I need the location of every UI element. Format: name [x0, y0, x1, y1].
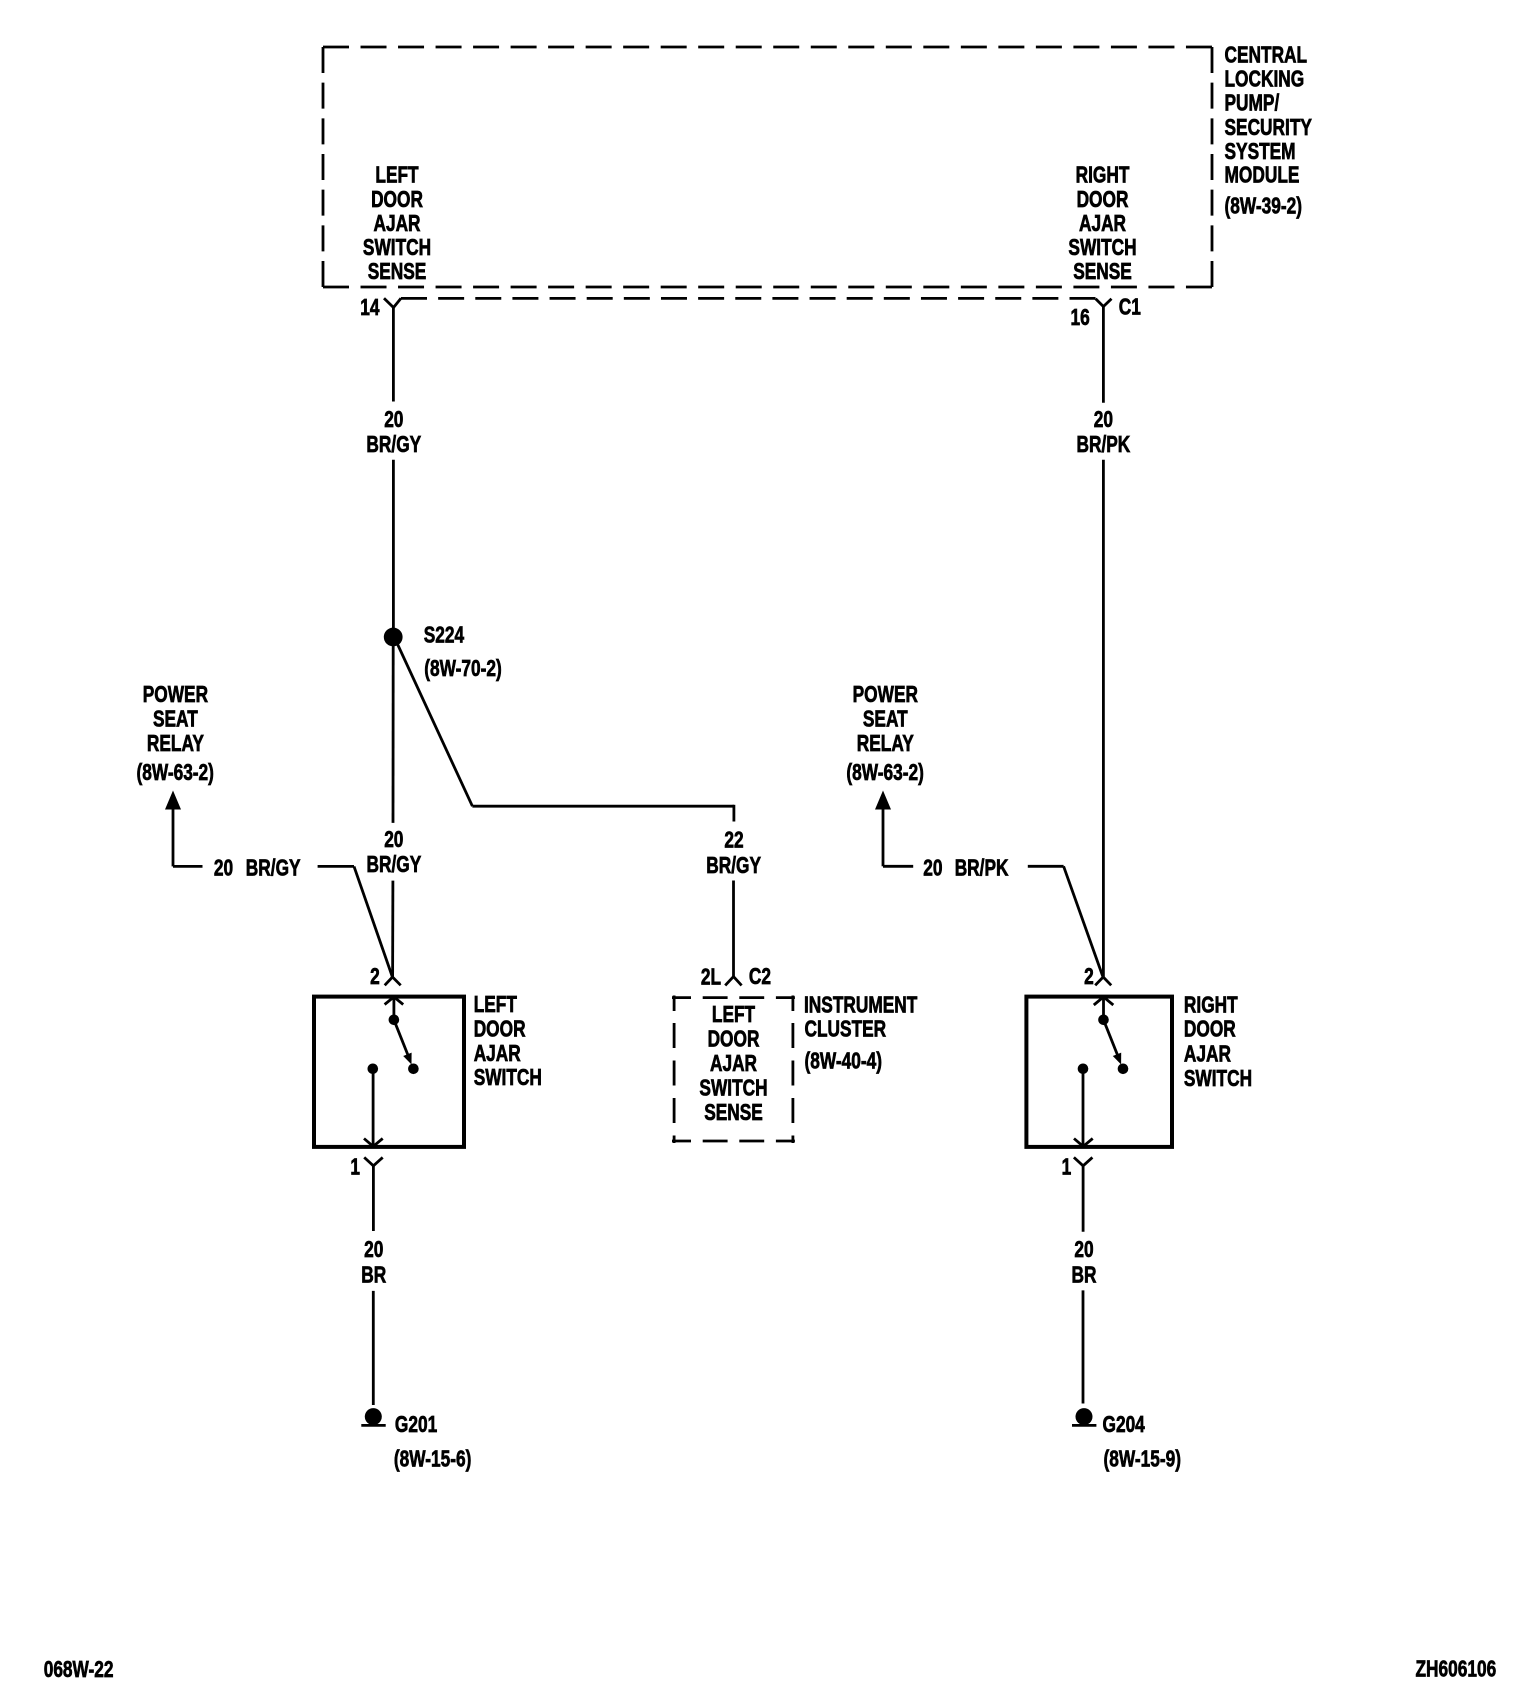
svg-text:C1: C1: [1119, 295, 1141, 320]
instrument cluster box (dashed): [672, 996, 795, 1144]
svg-text:LOCKING: LOCKING: [1225, 67, 1305, 92]
label: 20 BR (left ground wire): [361, 1238, 386, 1288]
splice S224: [384, 628, 403, 647]
svg-text:SENSE: SENSE: [704, 1101, 763, 1126]
label: power seat relay (8W-63-2) right: [846, 683, 923, 786]
svg-text:BR/GY: BR/GY: [706, 854, 761, 879]
wire: 20 BR down to G204: [1082, 1290, 1085, 1403]
svg-text:POWER: POWER: [143, 683, 209, 708]
label: left door ajar switch sense (module pin 14): [363, 163, 431, 284]
svg-text:G201: G201: [395, 1413, 437, 1438]
svg-text:RELAY: RELAY: [147, 732, 204, 757]
svg-text:20: 20: [384, 828, 403, 853]
svg-text:SYSTEM: SYSTEM: [1225, 140, 1296, 165]
switch symbol (left door ajar switch): [364, 997, 419, 1147]
arrow to power seat relay (left): [165, 791, 181, 867]
label: pin 1 (right): [1062, 1155, 1072, 1180]
wire: branch to left door ajar switch pin 2: [318, 866, 393, 977]
label: right door ajar switch sense (module pin 16): [1068, 163, 1136, 284]
svg-text:BR/GY: BR/GY: [367, 853, 422, 878]
svg-text:20: 20: [923, 856, 942, 881]
label: pin 16: [1070, 306, 1089, 331]
label: sheet number 068W-22: [44, 1658, 114, 1683]
svg-text:(8W-40-4): (8W-40-4): [805, 1049, 882, 1074]
svg-text:(8W-63-2): (8W-63-2): [136, 761, 213, 786]
arrow to power seat relay (right): [875, 791, 891, 867]
wire: 20 BR down to G201: [372, 1291, 375, 1405]
connector pin 1 (left): [364, 1157, 383, 1231]
switch symbol (right door ajar switch): [1074, 997, 1128, 1147]
svg-text:LEFT: LEFT: [712, 1003, 756, 1028]
ground G201: [361, 1408, 385, 1425]
svg-text:DOOR: DOOR: [1077, 188, 1129, 213]
svg-text:ZH606106: ZH606106: [1416, 1657, 1497, 1682]
label: S224 (8W-70-2): [424, 623, 502, 682]
svg-text:DOOR: DOOR: [371, 188, 423, 213]
connector pin 2L at instrument cluster: [725, 977, 741, 986]
label: right door ajar switch: [1184, 993, 1252, 1091]
svg-text:16: 16: [1070, 306, 1089, 331]
svg-text:LEFT: LEFT: [474, 993, 518, 1018]
svg-text:RELAY: RELAY: [857, 732, 914, 757]
label: 20 BR (right ground wire): [1072, 1238, 1097, 1288]
label: power seat relay (8W-63-2) left: [136, 683, 213, 786]
svg-text:AJAR: AJAR: [1184, 1042, 1231, 1067]
svg-text:AJAR: AJAR: [710, 1052, 757, 1077]
svg-text:S224: S224: [424, 623, 465, 648]
label: 20 BR/GY (wire to left door ajar switch): [367, 828, 422, 878]
svg-text:LEFT: LEFT: [375, 163, 419, 188]
label: G204 (8W-15-9): [1103, 1413, 1181, 1473]
svg-text:(8W-70-2): (8W-70-2): [424, 657, 501, 682]
svg-text:DOOR: DOOR: [708, 1027, 760, 1052]
label: pin 1 (left): [350, 1155, 360, 1180]
label: G201 (8W-15-6): [394, 1413, 471, 1473]
svg-text:AJAR: AJAR: [373, 212, 420, 237]
svg-text:SWITCH: SWITCH: [474, 1066, 542, 1091]
svg-text:2: 2: [370, 965, 380, 990]
svg-text:C2: C2: [749, 965, 771, 990]
ground G204: [1072, 1408, 1096, 1425]
label: instrument cluster (8W-40-4): [804, 993, 918, 1074]
svg-text:1: 1: [350, 1155, 360, 1180]
label: 20 BR/GY (left wire): [366, 408, 421, 458]
label: left door ajar switch: [474, 993, 542, 1091]
svg-text:(8W-15-6): (8W-15-6): [394, 1447, 471, 1472]
svg-text:BR/PK: BR/PK: [1076, 433, 1130, 458]
label: pin 2L: [701, 965, 721, 990]
svg-text:SECURITY: SECURITY: [1225, 116, 1313, 141]
label: pin 2 (left): [370, 965, 380, 990]
svg-text:1: 1: [1062, 1155, 1072, 1180]
wire: 20 BR/GY from module pin 14 down to splice: [392, 308, 395, 629]
svg-text:BR/GY: BR/GY: [246, 856, 301, 881]
svg-text:DOOR: DOOR: [1184, 1017, 1236, 1042]
label: 22 BR/GY (instrument cluster wire): [706, 828, 761, 878]
svg-text:SENSE: SENSE: [368, 260, 427, 285]
connector pin 2 (left door ajar switch): [385, 977, 401, 985]
svg-text:SEAT: SEAT: [863, 707, 908, 732]
svg-text:SEAT: SEAT: [153, 707, 198, 732]
svg-text:G204: G204: [1103, 1413, 1146, 1438]
svg-text:MODULE: MODULE: [1225, 163, 1300, 188]
svg-text:SWITCH: SWITCH: [699, 1076, 767, 1101]
label: drawing number ZH606106: [1416, 1657, 1497, 1682]
connector C1 dashed line between pin 14 and pin 16: [401, 297, 1096, 300]
svg-text:20: 20: [1094, 408, 1113, 433]
svg-text:BR: BR: [1072, 1263, 1097, 1288]
label: pin 2 (right): [1084, 965, 1094, 990]
svg-text:BR/PK: BR/PK: [955, 856, 1009, 881]
svg-text:POWER: POWER: [853, 683, 919, 708]
svg-text:2L: 2L: [701, 965, 721, 990]
svg-text:20: 20: [1074, 1238, 1093, 1263]
label: connector C1: [1119, 295, 1141, 320]
svg-text:(8W-63-2): (8W-63-2): [846, 761, 923, 786]
svg-text:14: 14: [360, 296, 380, 321]
wire: power seat relay branch stub (left): [173, 865, 203, 868]
wire: branch to right door ajar switch pin 2: [1028, 866, 1103, 977]
svg-text:DOOR: DOOR: [474, 1017, 526, 1042]
module box: central locking pump / security system module (dashed): [323, 47, 1212, 287]
label: 20 BR/GY (power seat relay branch): [214, 856, 301, 881]
svg-text:SENSE: SENSE: [1073, 260, 1132, 285]
svg-text:PUMP/: PUMP/: [1225, 91, 1280, 116]
wire: power seat relay branch stub (right): [883, 865, 913, 868]
connector pin 1 (right): [1074, 1157, 1093, 1231]
svg-text:20: 20: [384, 408, 403, 433]
pin 16 connector: [1096, 299, 1112, 307]
svg-text:RIGHT: RIGHT: [1184, 993, 1238, 1018]
label: left door ajar switch sense (instrument cluster): [699, 1003, 767, 1126]
label: 20 BR/PK (right wire): [1076, 408, 1130, 458]
svg-text:INSTRUMENT: INSTRUMENT: [804, 993, 918, 1018]
svg-text:BR: BR: [361, 1263, 386, 1288]
svg-text:2: 2: [1084, 965, 1094, 990]
left door ajar switch box: [314, 997, 464, 1147]
label: central locking pump/security system module (8W-39-2): [1225, 43, 1313, 219]
svg-text:AJAR: AJAR: [474, 1042, 521, 1067]
svg-text:SWITCH: SWITCH: [363, 236, 431, 261]
svg-text:068W-22: 068W-22: [44, 1658, 114, 1683]
svg-text:20: 20: [364, 1238, 383, 1263]
svg-text:SWITCH: SWITCH: [1068, 236, 1136, 261]
wire: 20 BR/PK from module pin 16 down to right door ajar switch: [1102, 307, 1105, 977]
svg-text:(8W-39-2): (8W-39-2): [1225, 194, 1302, 219]
svg-text:CENTRAL: CENTRAL: [1225, 43, 1308, 68]
svg-text:SWITCH: SWITCH: [1184, 1067, 1252, 1092]
label: 20 BR/PK (power seat relay branch): [923, 856, 1009, 881]
label: connector C2: [749, 965, 771, 990]
svg-text:BR/GY: BR/GY: [366, 433, 421, 458]
svg-text:AJAR: AJAR: [1079, 212, 1126, 237]
label: pin 14: [360, 296, 380, 321]
svg-text:RIGHT: RIGHT: [1076, 163, 1130, 188]
svg-text:(8W-15-9): (8W-15-9): [1104, 1447, 1181, 1472]
svg-text:20: 20: [214, 856, 233, 881]
svg-text:22: 22: [724, 828, 743, 853]
pin 14 connector: [384, 298, 401, 307]
right door ajar switch box: [1026, 997, 1172, 1147]
svg-text:CLUSTER: CLUSTER: [805, 1017, 887, 1042]
wire: branch from S224 to instrument cluster (22 BR/GY): [394, 637, 734, 977]
connector pin 2 (right door ajar switch): [1095, 977, 1111, 985]
wire: from S224 down to left door ajar switch pin 2: [391, 646, 394, 977]
